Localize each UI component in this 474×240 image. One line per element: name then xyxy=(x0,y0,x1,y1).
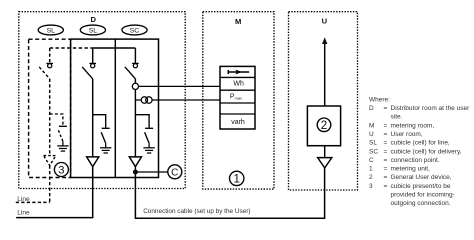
svg-text:SC: SC xyxy=(130,27,140,34)
wire feeder col3 mid xyxy=(134,79,136,157)
current transformer double circle xyxy=(141,97,152,103)
earthing switch col3 blade xyxy=(145,132,150,143)
metering room box M xyxy=(203,12,274,189)
svg-text:1: 1 xyxy=(233,173,239,186)
earthing switch col1 branch wire (dashed) xyxy=(50,114,63,126)
busbar solid segment xyxy=(93,47,136,49)
svg-text:3: 3 xyxy=(369,183,373,190)
svg-text:SL: SL xyxy=(369,140,377,147)
svg-text:M: M xyxy=(369,122,374,129)
svg-text:metering room,: metering room, xyxy=(391,122,435,129)
svg-text:=: = xyxy=(384,148,388,155)
svg-text:=: = xyxy=(384,105,388,112)
earthing switch col1 contact bar xyxy=(59,125,67,127)
user room box U xyxy=(289,12,358,190)
ground symbol col3 xyxy=(143,143,154,153)
cable termination triangle col3 xyxy=(129,157,141,167)
current transformer stub wire xyxy=(135,99,141,101)
svg-text:2: 2 xyxy=(369,174,373,181)
meter arrow symbol xyxy=(228,70,250,75)
wire col2 to line xyxy=(16,167,93,218)
node C circled xyxy=(168,165,182,179)
svg-text:D: D xyxy=(369,105,374,112)
svg-text:=: = xyxy=(384,122,388,129)
wire junction to C label xyxy=(135,171,167,173)
svg-text:U: U xyxy=(369,131,374,138)
wire transformer to meter Pmax xyxy=(152,99,220,101)
svg-text:Where:: Where: xyxy=(369,96,390,103)
earthing switch col2 branch wire xyxy=(93,115,106,128)
ground symbol col2 xyxy=(100,143,111,153)
cubicle box SL2+SC xyxy=(71,39,159,177)
wire triangle to junction xyxy=(134,167,136,172)
svg-text:cubicle (cell) for delivery,: cubicle (cell) for delivery, xyxy=(391,148,462,155)
earthing switch col3 contact bar xyxy=(145,127,153,129)
wire col1 to line (dashed vertical) xyxy=(49,166,51,203)
node 1 circled xyxy=(230,171,244,185)
svg-text:connection point.: connection point. xyxy=(391,157,440,164)
earthing switch col2 contact bar xyxy=(102,127,110,129)
wire box2 to triangle xyxy=(324,146,326,158)
cable termination triangle col2 xyxy=(87,157,99,167)
svg-text:=: = xyxy=(384,166,388,173)
svg-text:SL: SL xyxy=(47,27,56,34)
wire feeder col1 lower (dashed) xyxy=(49,79,51,156)
svg-text:M: M xyxy=(235,17,241,26)
cubicle ellipse SL2 xyxy=(80,25,105,35)
cubicle ellipse SL1 xyxy=(38,25,63,35)
svg-text:=: = xyxy=(384,183,388,190)
svg-text:cubicle (cell) for line,: cubicle (cell) for line, xyxy=(391,140,450,147)
svg-text:=: = xyxy=(384,174,388,181)
svg-text:SL: SL xyxy=(89,27,98,34)
legend text xyxy=(369,96,470,207)
svg-text:=: = xyxy=(384,157,388,164)
svg-text:Line: Line xyxy=(17,196,30,203)
cubicle 3 dashed box xyxy=(29,39,71,177)
node 3 circled xyxy=(54,163,68,177)
svg-text:C: C xyxy=(369,157,374,164)
svg-text:General User device,: General User device, xyxy=(391,174,452,181)
wire instrument to meter Wh xyxy=(139,85,221,87)
earthing switch col1 blade (dashed) xyxy=(58,130,63,141)
junction node C dot xyxy=(133,170,138,175)
svg-text:=: = xyxy=(384,131,388,138)
svg-text:C: C xyxy=(171,167,178,178)
svg-text:provided for incoming-: provided for incoming- xyxy=(391,192,455,199)
busbar dashed segment xyxy=(50,47,93,49)
svg-text:outgoing connection.: outgoing connection. xyxy=(391,200,451,207)
svg-text:3: 3 xyxy=(58,165,64,177)
svg-text:2: 2 xyxy=(321,119,327,132)
cubicle ellipse SC xyxy=(122,25,147,35)
svg-text:Wh: Wh xyxy=(233,81,244,88)
meter box xyxy=(220,66,255,129)
svg-text:Line: Line xyxy=(17,210,30,217)
svg-text:cubicle present/to be: cubicle present/to be xyxy=(391,183,451,190)
disconnector col1 (dashed) xyxy=(39,63,53,78)
earthing switch col2 blade xyxy=(101,132,106,143)
cubicle divider xyxy=(114,39,116,177)
svg-text:Connection cable (set up by th: Connection cable (set up by the User) xyxy=(143,208,250,215)
svg-text:1: 1 xyxy=(369,166,373,173)
svg-text:U: U xyxy=(322,17,328,26)
connection cable wire xyxy=(135,168,324,218)
svg-text:metering unit,: metering unit, xyxy=(391,166,431,173)
svg-text:varh: varh xyxy=(231,119,245,126)
disconnector col2 xyxy=(82,63,96,78)
wire feeder col3 upper xyxy=(134,48,136,63)
voltage instrument circle col3 xyxy=(132,83,138,89)
wire feeder col2 upper xyxy=(92,48,94,63)
ground symbol col1 xyxy=(57,141,68,151)
arrow to user load xyxy=(322,37,327,106)
earthing switch col3 branch wire xyxy=(135,115,149,128)
svg-text:=: = xyxy=(384,140,388,147)
cable termination triangle U xyxy=(318,158,332,168)
svg-text:Pmax: Pmax xyxy=(230,94,242,101)
meter cell dividers xyxy=(220,77,255,114)
wire line1 (dashed horizontal) xyxy=(16,201,50,203)
svg-text:site.: site. xyxy=(391,114,403,121)
wire feeder col1 upper (dashed) xyxy=(49,48,51,63)
svg-text:User room,: User room, xyxy=(391,131,423,138)
cable termination triangle col1 (dashed) xyxy=(44,156,56,166)
svg-text:D: D xyxy=(91,15,97,24)
disconnector col3 xyxy=(125,63,139,78)
general user device box 2 xyxy=(307,106,340,146)
distributor room box D xyxy=(19,12,185,189)
wire feeder col2 lower xyxy=(92,79,94,157)
svg-text:Distributor room at the user: Distributor room at the user xyxy=(391,105,471,112)
svg-text:SC: SC xyxy=(369,148,378,155)
